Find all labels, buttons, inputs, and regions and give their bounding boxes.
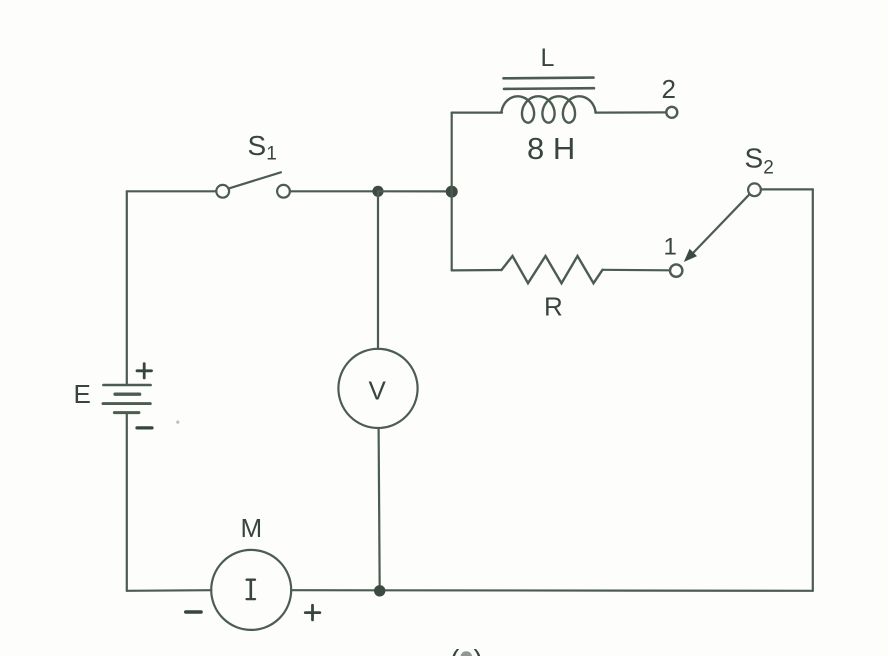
inductor L core line upper [504, 76, 594, 79]
ammeter M body [211, 550, 291, 630]
svg-text:S2: S2 [745, 143, 774, 179]
terminal 1 (open circle) [670, 264, 682, 276]
inductor L coil [502, 96, 596, 122]
svg-text:2: 2 [662, 74, 676, 104]
wire: S2 pivot to right rail corner [761, 188, 813, 190]
wire: S1 right contact to node A [290, 190, 378, 192]
wire: branch vertical between inductor row and resistor row [451, 113, 453, 271]
scan speck artifact [176, 421, 179, 424]
junction node A (voltmeter tap, filled dot) [372, 186, 383, 197]
svg-text:L: L [541, 44, 555, 72]
svg-text:S1: S1 [248, 130, 277, 165]
svg-text:R: R [544, 292, 563, 322]
wire: node B row to resistor [452, 269, 502, 272]
wire: voltmeter bottom lead [379, 428, 380, 591]
switch S1 [216, 172, 290, 197]
junction node B (L/R branch split, filled dot) [446, 186, 458, 198]
svg-text:): ) [474, 644, 483, 656]
wire: right vertical rail [812, 189, 814, 590]
voltmeter V body [338, 349, 417, 428]
inductor L core line lower [504, 87, 594, 90]
ammeter letter I (serif strokes) [247, 580, 255, 599]
resistor R zigzag [502, 256, 603, 283]
wire: top-left horizontal (corner to S1 left contact) [127, 190, 217, 192]
svg-text:E: E [74, 379, 91, 409]
svg-text:V: V [369, 376, 387, 406]
wire: resistor to terminal 1 [603, 269, 671, 272]
junction node C (voltmeter bottom tap, filled dot) [374, 585, 385, 596]
svg-text:(: ( [450, 644, 460, 656]
wire: voltmeter top lead [377, 191, 379, 349]
wire: battery bottom to bottom rail [126, 414, 128, 591]
wire: node B row to inductor [452, 111, 502, 113]
switch S2 pivot contact (open circle) [748, 183, 761, 196]
ammeter minus sign [186, 610, 201, 614]
wire: left vertical rail (top corner down to battery) [126, 191, 128, 384]
switch S2 blade with arrowhead pointing at terminal 1 [684, 194, 750, 262]
battery E plates [103, 385, 151, 413]
wire: node A to node B [378, 190, 452, 192]
battery minus sign [137, 426, 152, 429]
ammeter plus sign [305, 605, 320, 620]
svg-text:1: 1 [664, 234, 677, 261]
terminal 2 (open circle) [666, 107, 677, 118]
battery plus sign [137, 364, 152, 378]
svg-text:8 H: 8 H [527, 131, 575, 166]
svg-text:M: M [241, 513, 263, 543]
wire: bottom rail left (corner to ammeter) [127, 589, 212, 592]
wire: inductor to terminal 2 [596, 111, 667, 113]
wire: bottom rail right (ammeter to right rail corner) [291, 589, 813, 592]
